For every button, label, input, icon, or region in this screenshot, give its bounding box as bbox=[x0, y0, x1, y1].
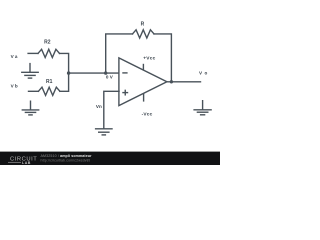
svg-text:V b: V b bbox=[11, 84, 18, 89]
svg-text:V o: V o bbox=[199, 70, 208, 75]
svg-text:LAB: LAB bbox=[22, 161, 31, 165]
+Vcc supply tick bbox=[142, 65, 144, 70]
wire Va stub bbox=[28, 52, 38, 54]
resistor R1 bbox=[38, 87, 60, 95]
wire Vb stub bbox=[29, 90, 39, 92]
svg-text:V a: V a bbox=[11, 54, 18, 59]
svg-text:Vn: Vn bbox=[96, 104, 102, 109]
svg-text:R: R bbox=[141, 21, 145, 27]
wire R2 to node A bbox=[60, 53, 69, 73]
ground for Vb bbox=[22, 101, 38, 115]
wire feedback riser bbox=[106, 34, 133, 73]
svg-text:0 V: 0 V bbox=[106, 74, 114, 79]
footer logo CIRCUIT LAB bbox=[8, 157, 37, 165]
svg-text:R2: R2 bbox=[44, 40, 51, 46]
ground for Va bbox=[22, 64, 38, 79]
svg-text:R1: R1 bbox=[46, 79, 53, 85]
svg-text:http://circuitlab.com/c2wsdv8t: http://circuitlab.com/c2wsdv8t bbox=[41, 158, 90, 162]
svg-text:+Vcc: +Vcc bbox=[143, 56, 155, 62]
-Vcc supply tick bbox=[143, 94, 145, 101]
wire node A to inverting input bbox=[69, 72, 119, 74]
resistor R bbox=[133, 30, 155, 38]
ground for non-inverting input bbox=[96, 129, 112, 135]
svg-text:-Vcc: -Vcc bbox=[142, 112, 153, 118]
footer bar bbox=[0, 152, 220, 165]
op-amp U1 bbox=[119, 58, 167, 106]
node 0V junction dot bbox=[104, 71, 107, 74]
node output junction dot bbox=[170, 80, 173, 83]
resistor R2 bbox=[38, 49, 60, 57]
wire op-amp output bbox=[167, 81, 201, 83]
node A junction dot bbox=[67, 71, 70, 74]
wire R to output node bbox=[154, 34, 171, 82]
op-amp plus sign bbox=[123, 90, 128, 95]
op-amp minus sign bbox=[123, 72, 127, 74]
ground for output bbox=[194, 101, 211, 115]
wire non-inverting input bbox=[104, 91, 119, 128]
wire R1 to node A bbox=[60, 73, 69, 91]
